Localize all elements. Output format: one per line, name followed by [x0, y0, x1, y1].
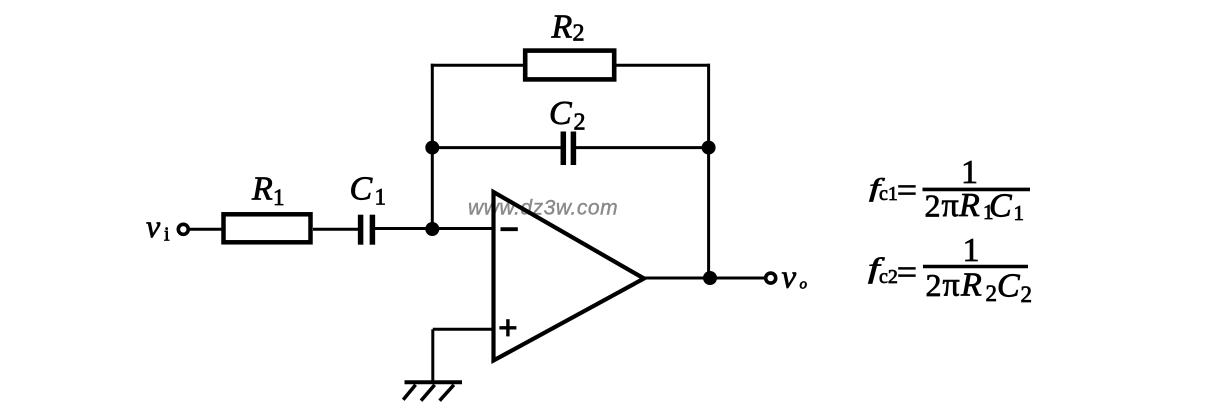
wire: op-amp output [644, 277, 765, 280]
svg-text:c2: c2 [879, 266, 898, 288]
wire: input terminal to R1 [189, 228, 224, 231]
formula fc2 = 1/(2 pi R2 C2) [868, 232, 1032, 307]
label vi [146, 208, 170, 246]
wire: top feedback left segment [431, 64, 525, 67]
svg-text:1: 1 [273, 185, 285, 210]
ground [403, 382, 462, 400]
svg-text:c1: c1 [879, 183, 898, 205]
svg-text:C: C [549, 95, 572, 132]
wire: right vertical feedback riser [707, 64, 710, 278]
svg-text:2: 2 [925, 188, 941, 224]
svg-text:R: R [958, 187, 980, 224]
wire: C2 branch left segment [432, 146, 561, 149]
svg-text:2: 2 [574, 110, 586, 136]
node vo output terminal [766, 273, 776, 283]
svg-text:C: C [989, 188, 1012, 225]
junction: C2 left node [425, 141, 439, 155]
label C2 [549, 95, 586, 136]
svg-text:R: R [251, 171, 273, 208]
svg-text:v: v [782, 260, 797, 296]
op-amp U1 [494, 192, 645, 361]
svg-text:C: C [997, 268, 1020, 305]
wire: left vertical feedback riser [431, 64, 434, 229]
node vi input terminal [178, 224, 188, 234]
wire: C1 to inverting input of op-amp [375, 227, 493, 230]
formula fc1 = 1/(2 pi R1 C1) [869, 154, 1030, 225]
junction: C2 right node [702, 141, 716, 155]
svg-text:=: = [897, 170, 917, 210]
svg-text:1: 1 [961, 154, 978, 191]
svg-text:i: i [164, 224, 170, 246]
node A: inverting input junction [425, 222, 439, 236]
wire: non-inverting input vertical to ground [431, 329, 434, 382]
svg-text:2: 2 [926, 267, 942, 303]
svg-text:1: 1 [963, 232, 980, 269]
svg-text:2: 2 [986, 281, 998, 306]
svg-text:R: R [960, 267, 982, 304]
svg-text:o: o [800, 277, 808, 293]
svg-text:R: R [551, 9, 573, 46]
label R1 [251, 171, 285, 211]
resistor R1 [224, 214, 311, 242]
junction: output node [703, 271, 717, 285]
label C1 [350, 171, 387, 210]
svg-text:=: = [897, 252, 917, 292]
svg-text:v: v [146, 208, 161, 244]
svg-text:π: π [943, 267, 960, 304]
wire: C2 branch right segment [576, 146, 709, 149]
svg-text:2: 2 [1021, 282, 1033, 307]
svg-text:1: 1 [1014, 201, 1025, 225]
svg-text:2: 2 [573, 21, 585, 47]
capacitor C1 [361, 215, 373, 245]
wire: non-inverting input horizontal [433, 328, 493, 331]
svg-text:www.dz3w.com: www.dz3w.com [468, 196, 618, 219]
wire: top feedback right segment [614, 64, 710, 67]
wire: R1 to C1 [313, 228, 358, 231]
svg-text:π: π [942, 187, 959, 224]
label vo [782, 260, 808, 296]
capacitor C2 [563, 132, 573, 166]
svg-text:C: C [350, 171, 373, 208]
label R2 [551, 9, 585, 47]
resistor R2 [525, 51, 614, 80]
svg-text:1: 1 [375, 185, 387, 210]
